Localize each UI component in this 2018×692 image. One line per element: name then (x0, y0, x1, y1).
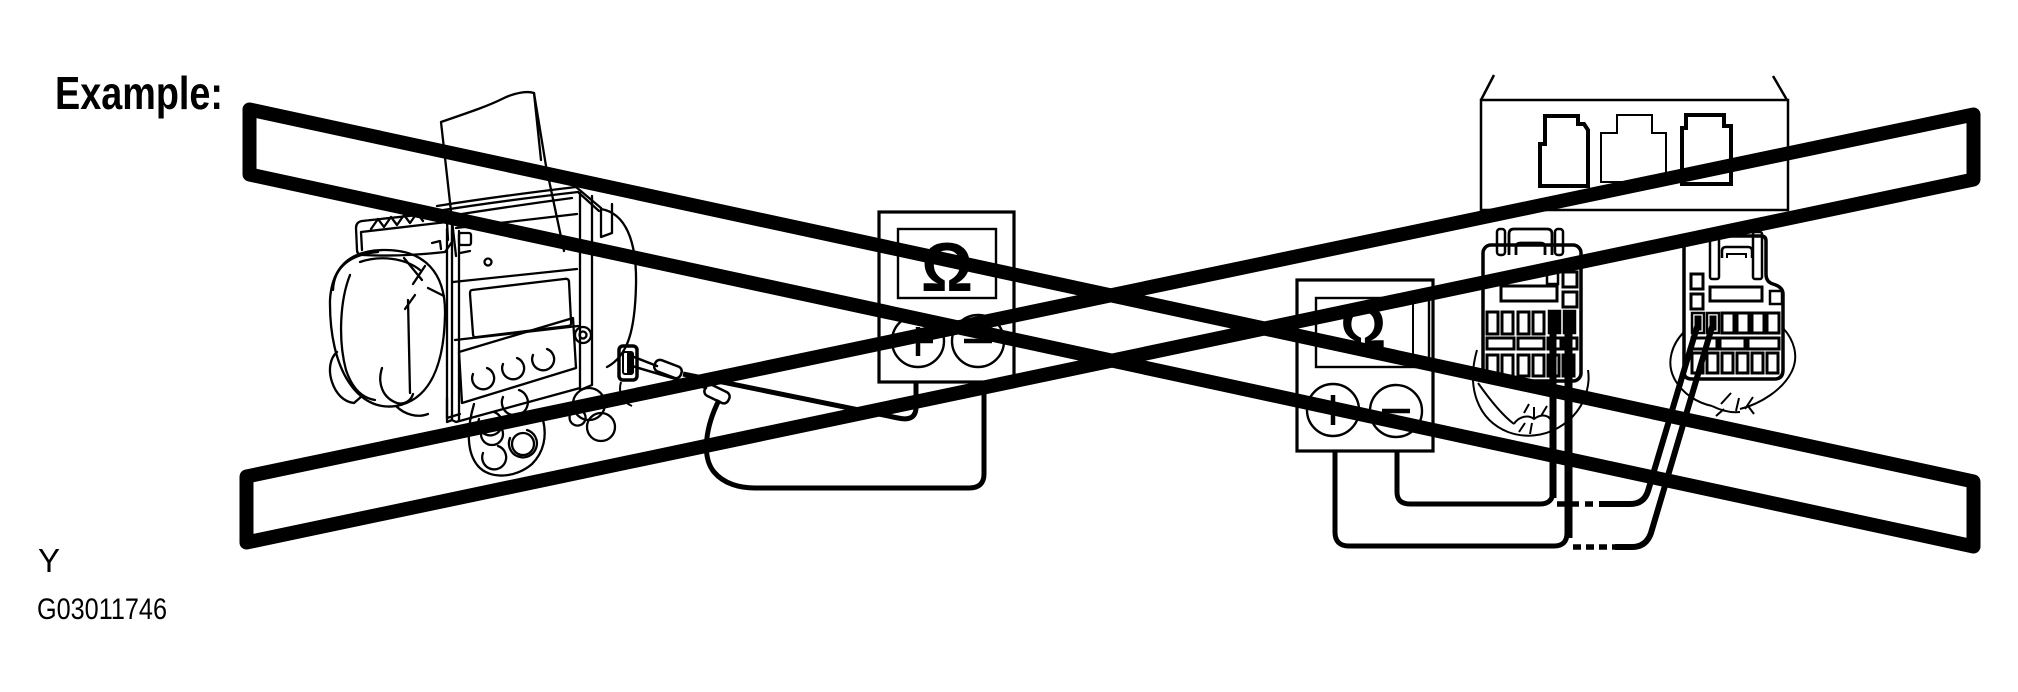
housing top rim (437, 187, 576, 206)
C2 pin 2 (probed) (1707, 313, 1719, 333)
C1 body (1483, 245, 1581, 381)
test probe B (632, 366, 731, 405)
airbag squib connector (619, 346, 637, 406)
C2 pin 1 (probed) (1692, 313, 1704, 333)
minus jack U2 (1370, 385, 1422, 437)
ohmmeter U2 (right) (1297, 280, 1433, 451)
face details (459, 233, 471, 245)
airbag assembly (line art) (330, 92, 636, 475)
C2 wide slot (1710, 287, 1762, 301)
right ear bracket (601, 204, 612, 237)
wire from dash to connector C2 pin 1 (1599, 327, 1697, 504)
frame front face (452, 230, 580, 422)
C1 terminal row 1 (1487, 312, 1498, 334)
C2 side slot (1770, 291, 1782, 304)
C2 left slots (1691, 274, 1703, 289)
lower plate with cutouts (459, 318, 576, 403)
C1 pin wire (to lower run) (1566, 316, 1573, 538)
plus jack U2 (1307, 384, 1359, 436)
ECU socket 1 (1540, 116, 1588, 186)
C1 pin wire (to upper run) (1550, 316, 1557, 498)
ECU socket 2 (1601, 115, 1666, 182)
connector C1 (1473, 229, 1589, 436)
scalloped curls (502, 390, 528, 415)
C1 right slots (1563, 272, 1577, 287)
test lead wire A (probe to ohmmeter 1 plus jack) (683, 374, 916, 419)
X mark bar 1 (descending) (250, 110, 1974, 547)
inflator drum (330, 250, 445, 407)
dashed hidden segment (lower) (1573, 544, 1617, 550)
C1 pin 4 (probed) (1549, 311, 1560, 333)
ohmmeter U1 (center) (879, 212, 1014, 382)
bottom bracket (469, 404, 545, 476)
C2 latch tabs (1710, 232, 1719, 279)
test probe A (634, 357, 683, 380)
C2 body (1684, 236, 1783, 379)
C1 key slot (1547, 271, 1558, 284)
top-left castellated bracket (356, 212, 452, 256)
ECU box (1481, 75, 1788, 210)
svg-text:Example:: Example: (55, 67, 223, 119)
airbag fabric sheet (441, 92, 564, 256)
connector C2 (1670, 232, 1795, 416)
drum inner curl (380, 368, 413, 404)
frame window (470, 279, 571, 337)
wire from dash to connector C2 pin 2 (1615, 327, 1712, 547)
hinge knuckles (573, 388, 605, 420)
plus jack U1 (892, 315, 944, 367)
ECU socket 3 (1682, 115, 1731, 184)
test lead wire B (probe to ohmmeter 1 minus jack) (706, 381, 984, 488)
C2 terminal row 2 (1692, 338, 1717, 349)
C1 wide slot (1501, 286, 1557, 301)
lead wire from U2 plus jack to connector C1 pin (lower run) (1335, 330, 1567, 546)
C2 terminal row 3 (1692, 353, 1703, 373)
C1 pin 5 (probed) (1564, 311, 1575, 333)
C1 harness loop (1473, 350, 1589, 436)
mounting bolt (575, 327, 591, 343)
svg-text:Y: Y (38, 542, 60, 579)
C1 latch tabs (1497, 229, 1505, 255)
C1 terminal row 3 (1487, 355, 1498, 376)
C2 harness loop (1670, 332, 1712, 406)
lead wire from U2 minus jack to connector C1 pin (upper run) (1397, 330, 1553, 504)
drum hook tab (330, 352, 362, 403)
svg-text:G03011746: G03011746 (37, 593, 167, 626)
inflator right end (601, 209, 636, 367)
C1 terminal row 2 (1487, 338, 1514, 349)
minus jack U1 (952, 315, 1004, 367)
C2 terminal row 1 (1722, 313, 1734, 333)
dashed hidden segment (upper) (1557, 501, 1601, 507)
X mark bar 2 (ascending) (247, 115, 1974, 543)
